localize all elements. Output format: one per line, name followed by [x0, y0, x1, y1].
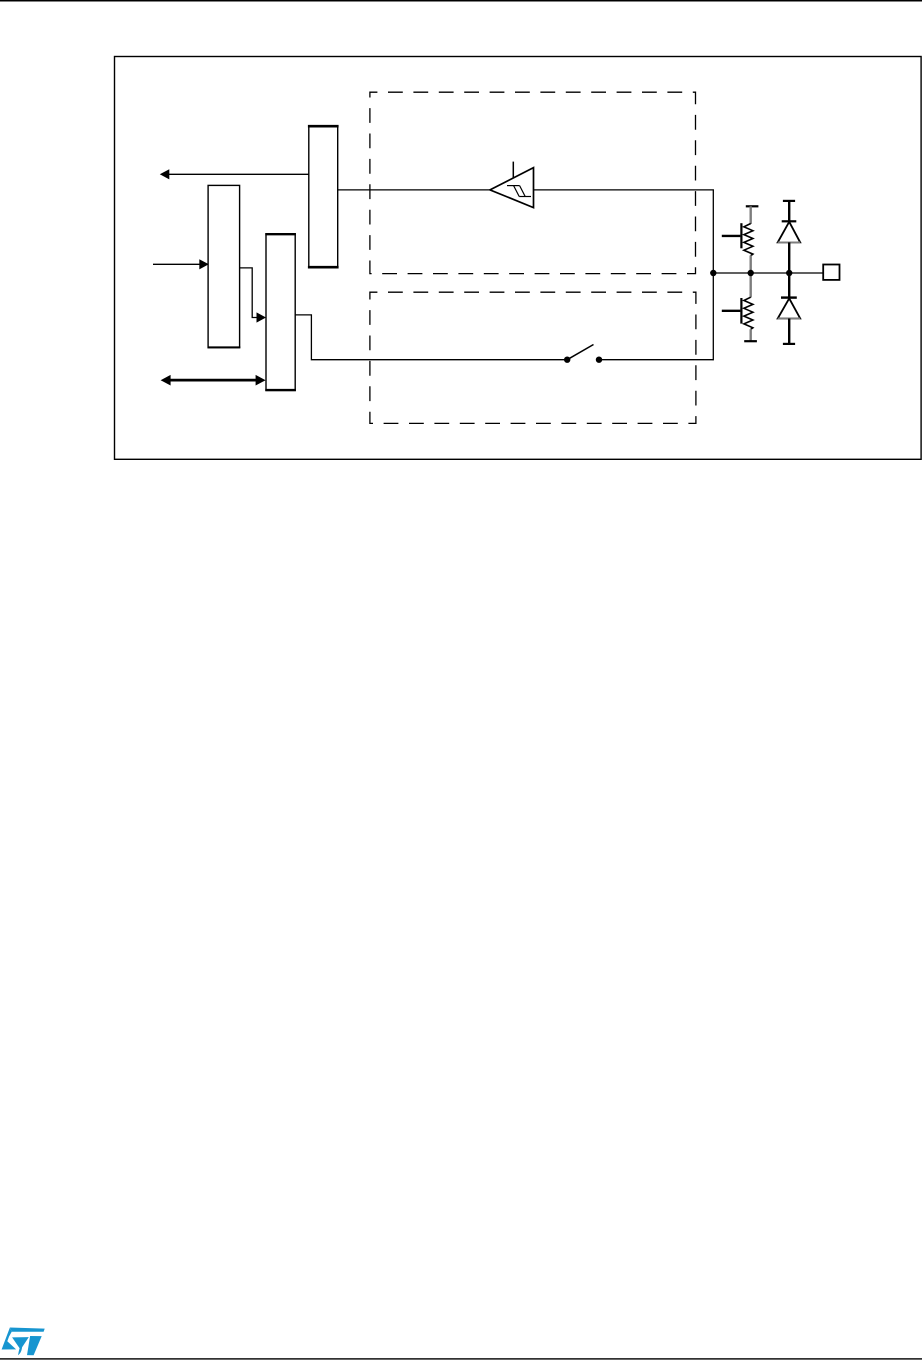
output driver dashed box: [370, 292, 696, 423]
VDD rail tick pull-up: [746, 205, 759, 207]
switch: [564, 345, 713, 363]
vertical bus wire: [712, 190, 714, 360]
register box B: [208, 185, 241, 347]
ST logo: [2, 1328, 45, 1356]
Write arrow: [153, 259, 209, 269]
junction dot pull resistors: [748, 270, 754, 276]
VSS rail tick diode: [783, 343, 795, 345]
pull-up resistor: [744, 206, 753, 273]
Schmitt trigger: [490, 162, 534, 208]
bottom rule: [0, 1358, 922, 1359]
VDD rail tick diode: [783, 200, 795, 202]
pull-up gate switch: [722, 223, 742, 248]
wire Schmitt output to vertical bus: [534, 189, 714, 191]
figure frame: [115, 57, 922, 460]
top rule: [0, 0, 922, 2]
node line to pin: [713, 272, 823, 274]
VSS rail tick pull-down: [744, 340, 757, 342]
wire box A to Schmitt input: [338, 189, 491, 191]
input driver dashed box: [370, 92, 696, 273]
wire C to switch: [295, 315, 567, 360]
I/O pin pad: [823, 265, 839, 280]
pull-down gate switch: [722, 298, 742, 324]
wire B to C: [240, 268, 266, 323]
protection diode to VSS: [778, 273, 801, 344]
Read/Write double arrow: [161, 375, 266, 386]
register box A: [308, 126, 339, 268]
register box C: [265, 234, 296, 391]
pull-down resistor: [744, 273, 753, 341]
Read arrow: [160, 169, 309, 179]
junction dot diodes: [786, 270, 792, 276]
junction dot bus: [710, 270, 716, 276]
protection diode to VDD: [778, 201, 801, 273]
